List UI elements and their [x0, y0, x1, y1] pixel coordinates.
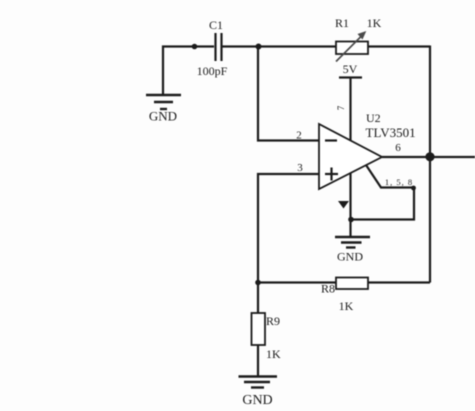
svg-text:U2: U2: [366, 111, 381, 125]
svg-text:1K: 1K: [367, 16, 382, 30]
wire pin3 branch from bottom net: [258, 174, 319, 283]
svg-text:5V: 5V: [343, 62, 358, 76]
svg-text:TLV3501: TLV3501: [366, 125, 416, 140]
svg-text:GND: GND: [242, 393, 272, 408]
node junction on top net (left of C1): [192, 44, 198, 50]
svg-text:6: 6: [395, 142, 401, 154]
svg-text:1K: 1K: [339, 299, 354, 313]
svg-text:7: 7: [336, 105, 346, 110]
svg-text:GND: GND: [337, 250, 363, 264]
node junction pin4 / pins158 return: [348, 217, 354, 223]
ground GND (middle, op-amp): [335, 237, 370, 248]
pin 4 marker: [338, 201, 349, 209]
node junction top net / pin2 branch: [256, 44, 262, 50]
capacitor C1: [216, 33, 222, 61]
svg-text:R1: R1: [335, 16, 349, 30]
op-amp U2 TLV3501 comparator triangle: [319, 124, 382, 189]
svg-text:1, 5, 8: 1, 5, 8: [385, 177, 413, 187]
resistor R9 (1K, to ground): [252, 313, 266, 345]
svg-text:R8: R8: [321, 282, 335, 296]
wire pin4 to ground: [349, 172, 351, 236]
plus input marking: [325, 168, 338, 181]
wire pin2 branch from top net: [258, 47, 319, 141]
wire 5V to pin7: [349, 78, 351, 142]
svg-text:C1: C1: [209, 18, 223, 32]
svg-text:100pF: 100pF: [197, 64, 228, 78]
svg-text:2: 2: [296, 130, 302, 142]
power 5V: [339, 76, 362, 78]
minus input marking: [325, 139, 337, 141]
wire bottom net left: [258, 281, 336, 283]
svg-text:3: 3: [297, 162, 303, 174]
svg-text:1K: 1K: [266, 347, 281, 361]
wire pins 1,5,8 diagonal from triangle: [351, 165, 414, 220]
wire R9 bottom lead: [257, 345, 259, 377]
svg-text:R9: R9: [266, 314, 280, 328]
wire R1 right to corner: [368, 45, 430, 47]
node junction bottom net / R9: [255, 280, 261, 286]
wire top net horizontal left: [163, 47, 214, 95]
node junction pins158 corner: [411, 186, 416, 191]
wire bottom net right of R8: [368, 281, 430, 283]
ground GND (bottom, under R9): [239, 377, 278, 388]
node junction output bus: [425, 152, 434, 161]
wire output pin6 to right edge: [382, 156, 475, 158]
resistor R1 (variable, 1K): [336, 31, 368, 62]
wire R9 top lead: [257, 283, 259, 314]
wire top net horizontal right of C1: [222, 45, 336, 47]
ground GND (left, under C1 net): [146, 95, 181, 109]
svg-text:GND: GND: [149, 109, 177, 124]
resistor R8 (1K, feedback): [336, 278, 368, 290]
wire right vertical (R1/R8/output bus): [429, 46, 431, 283]
